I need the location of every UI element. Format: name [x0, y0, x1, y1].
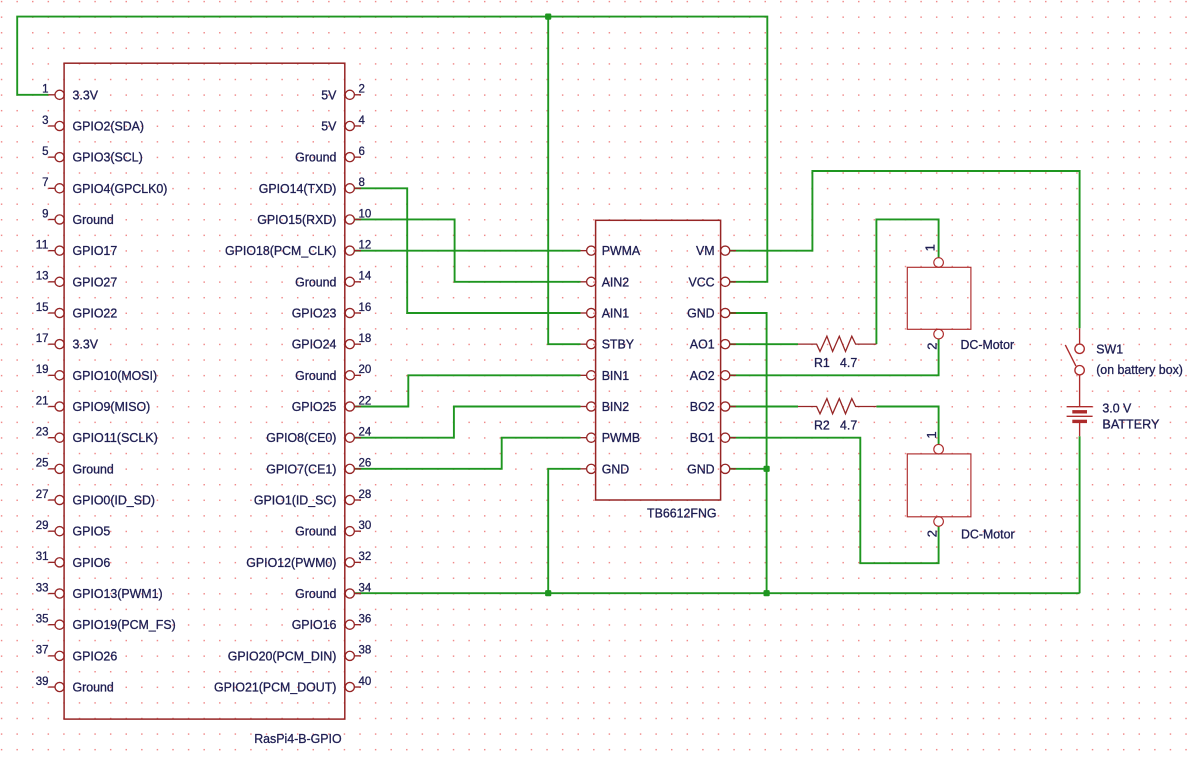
svg-text:GPIO3(SCL): GPIO3(SCL): [73, 150, 143, 165]
svg-text:GPIO26: GPIO26: [73, 648, 118, 663]
svg-text:GPIO2(SDA): GPIO2(SDA): [73, 118, 145, 133]
svg-text:GPIO23: GPIO23: [292, 305, 337, 320]
svg-text:VCC: VCC: [689, 274, 715, 289]
svg-text:18: 18: [359, 331, 372, 345]
svg-text:9: 9: [42, 206, 49, 220]
svg-text:SW1: SW1: [1096, 341, 1123, 356]
svg-text:39: 39: [36, 674, 49, 688]
svg-text:2: 2: [359, 82, 366, 96]
svg-text:GPIO12(PWM0): GPIO12(PWM0): [246, 555, 336, 570]
svg-text:GPIO11(SCLK): GPIO11(SCLK): [73, 430, 158, 445]
svg-text:GPIO22: GPIO22: [73, 305, 118, 320]
svg-text:GPIO27: GPIO27: [73, 274, 118, 289]
svg-text:GND: GND: [602, 461, 630, 476]
svg-text:GPIO7(CE1): GPIO7(CE1): [266, 461, 336, 476]
svg-text:3.3V: 3.3V: [73, 337, 99, 352]
svg-text:AO1: AO1: [690, 337, 715, 352]
svg-text:25: 25: [36, 456, 49, 470]
svg-text:3.0 V: 3.0 V: [1102, 401, 1131, 416]
svg-text:(on battery box): (on battery box): [1096, 362, 1183, 377]
svg-text:Ground: Ground: [73, 680, 114, 695]
svg-text:BO1: BO1: [690, 430, 715, 445]
svg-text:1: 1: [923, 244, 938, 251]
svg-text:22: 22: [359, 393, 372, 407]
svg-text:Ground: Ground: [295, 586, 336, 601]
svg-text:Ground: Ground: [73, 212, 114, 227]
svg-text:BIN2: BIN2: [602, 399, 630, 414]
svg-text:1: 1: [42, 82, 49, 96]
svg-text:BIN1: BIN1: [602, 368, 630, 383]
svg-text:17: 17: [36, 331, 49, 345]
svg-text:BATTERY: BATTERY: [1102, 417, 1159, 432]
svg-text:STBY: STBY: [602, 337, 635, 352]
svg-text:GPIO24: GPIO24: [292, 337, 337, 352]
svg-text:24: 24: [359, 424, 372, 438]
svg-text:36: 36: [359, 611, 372, 625]
svg-text:5: 5: [42, 144, 49, 158]
svg-text:20: 20: [359, 362, 372, 376]
svg-text:AO2: AO2: [690, 368, 715, 383]
svg-text:5V: 5V: [321, 118, 336, 133]
svg-text:27: 27: [36, 487, 49, 501]
svg-text:DC-Motor: DC-Motor: [961, 526, 1015, 541]
svg-text:GND: GND: [687, 461, 715, 476]
svg-text:19: 19: [36, 362, 49, 376]
svg-text:3.3V: 3.3V: [73, 87, 99, 102]
svg-text:3: 3: [42, 113, 49, 127]
svg-text:30: 30: [359, 518, 372, 532]
svg-text:10: 10: [359, 206, 372, 220]
svg-text:GPIO6: GPIO6: [73, 555, 111, 570]
svg-text:21: 21: [36, 393, 49, 407]
svg-text:11: 11: [36, 237, 49, 251]
svg-text:12: 12: [359, 237, 372, 251]
svg-text:GPIO10(MOSI): GPIO10(MOSI): [73, 368, 158, 383]
svg-text:6: 6: [359, 144, 366, 158]
svg-text:TB6612FNG: TB6612FNG: [647, 506, 717, 521]
svg-text:34: 34: [359, 580, 372, 594]
svg-text:R1: R1: [814, 355, 830, 370]
svg-text:35: 35: [36, 611, 49, 625]
svg-text:31: 31: [36, 549, 49, 563]
svg-text:GPIO1(ID_SC): GPIO1(ID_SC): [254, 493, 337, 508]
svg-text:AIN2: AIN2: [602, 274, 630, 289]
svg-text:2: 2: [924, 343, 939, 350]
svg-text:29: 29: [36, 518, 49, 532]
svg-text:15: 15: [36, 300, 49, 314]
svg-text:32: 32: [359, 549, 372, 563]
svg-text:Ground: Ground: [295, 524, 336, 539]
svg-text:GPIO16: GPIO16: [292, 617, 337, 632]
svg-text:GPIO18(PCM_CLK): GPIO18(PCM_CLK): [225, 243, 336, 258]
svg-text:PWMB: PWMB: [602, 430, 641, 445]
svg-text:38: 38: [359, 643, 372, 657]
svg-text:BO2: BO2: [690, 399, 715, 414]
svg-text:4.7: 4.7: [840, 355, 857, 370]
svg-text:GPIO5: GPIO5: [73, 524, 111, 539]
svg-text:GPIO20(PCM_DIN): GPIO20(PCM_DIN): [228, 648, 337, 663]
svg-text:GND: GND: [687, 305, 715, 320]
svg-text:40: 40: [359, 674, 372, 688]
svg-text:GPIO13(PWM1): GPIO13(PWM1): [73, 586, 163, 601]
svg-text:GPIO25: GPIO25: [292, 399, 337, 414]
svg-text:DC-Motor: DC-Motor: [961, 337, 1015, 352]
svg-text:Ground: Ground: [295, 368, 336, 383]
svg-text:GPIO19(PCM_FS): GPIO19(PCM_FS): [73, 617, 176, 632]
svg-text:28: 28: [359, 487, 372, 501]
svg-text:8: 8: [359, 175, 366, 189]
svg-text:5V: 5V: [321, 87, 336, 102]
svg-text:GPIO9(MISO): GPIO9(MISO): [73, 399, 151, 414]
svg-text:16: 16: [359, 300, 372, 314]
svg-text:Ground: Ground: [295, 150, 336, 165]
svg-text:Ground: Ground: [73, 461, 114, 476]
svg-text:23: 23: [36, 424, 49, 438]
svg-text:Ground: Ground: [295, 274, 336, 289]
svg-text:14: 14: [359, 269, 372, 283]
svg-text:GPIO15(RXD): GPIO15(RXD): [257, 212, 336, 227]
svg-text:2: 2: [925, 530, 940, 537]
svg-text:4.7: 4.7: [840, 417, 857, 432]
svg-text:R2: R2: [814, 417, 830, 432]
svg-text:13: 13: [36, 269, 49, 283]
svg-text:PWMA: PWMA: [602, 243, 641, 258]
svg-text:4: 4: [359, 113, 366, 127]
svg-text:GPIO8(CE0): GPIO8(CE0): [266, 430, 336, 445]
svg-text:GPIO21(PCM_DOUT): GPIO21(PCM_DOUT): [214, 680, 336, 695]
svg-text:RasPi4-B-GPIO: RasPi4-B-GPIO: [254, 731, 341, 746]
svg-text:GPIO14(TXD): GPIO14(TXD): [259, 181, 337, 196]
svg-text:37: 37: [36, 643, 49, 657]
svg-text:7: 7: [42, 175, 49, 189]
svg-text:1: 1: [924, 431, 939, 438]
svg-text:VM: VM: [696, 243, 715, 258]
svg-text:33: 33: [36, 580, 49, 594]
svg-text:26: 26: [359, 456, 372, 470]
svg-text:AIN1: AIN1: [602, 305, 630, 320]
svg-text:GPIO4(GPCLK0): GPIO4(GPCLK0): [73, 181, 168, 196]
svg-text:GPIO0(ID_SD): GPIO0(ID_SD): [73, 493, 156, 508]
svg-text:GPIO17: GPIO17: [73, 243, 118, 258]
